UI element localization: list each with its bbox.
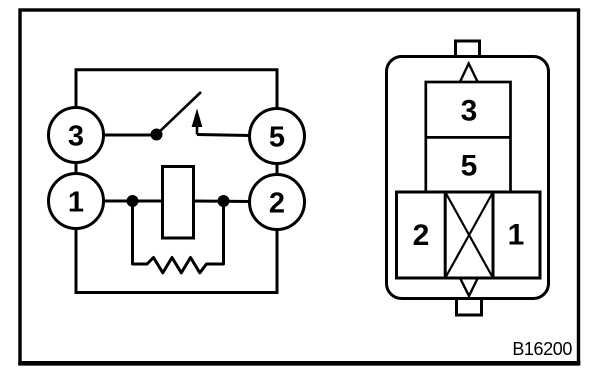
connector pin box 3 and 5 outline	[426, 82, 511, 192]
terminal 3	[49, 108, 104, 163]
svg-text:1: 1	[68, 186, 84, 218]
junction node right of coil	[218, 195, 230, 207]
wire from coil to terminal 2	[194, 200, 251, 204]
svg-text:3: 3	[461, 94, 478, 127]
connector keying arrow up	[460, 64, 478, 83]
svg-text:2: 2	[269, 187, 285, 219]
keyway cell left wall	[444, 192, 447, 278]
wire from terminal 1 to coil	[105, 200, 163, 203]
switch S contact junction dot	[151, 129, 163, 141]
keyway cross diagonal 1	[445, 192, 493, 278]
wire from terminal 3 to switch contact	[104, 134, 153, 137]
connector keying arrow down	[460, 278, 478, 296]
divider between pin 3 and pin 5	[426, 136, 511, 139]
wire bottom loop from terminal 1 to terminal 2	[76, 229, 277, 293]
svg-text:5: 5	[269, 121, 285, 153]
wire stub terminal 5 to terminal 2	[276, 164, 279, 175]
relay coil L1	[163, 167, 194, 239]
keyway cell right wall	[492, 192, 495, 278]
svg-text:2: 2	[413, 219, 430, 252]
wire top loop from terminal 3 to terminal 5	[76, 70, 277, 110]
junction node left of coil	[127, 195, 139, 207]
switch S blade	[157, 92, 202, 135]
connector bottom locating tab	[457, 297, 482, 315]
switch S arrow stem	[196, 126, 199, 135]
terminal 2	[250, 175, 305, 230]
connector top locating tab	[456, 41, 480, 58]
svg-text:3: 3	[68, 120, 84, 152]
terminal 1	[49, 174, 104, 229]
switch S arrow head	[192, 109, 203, 128]
svg-text:5: 5	[461, 150, 478, 183]
connector body outline	[387, 57, 549, 299]
connector lower pin row outline	[397, 192, 541, 278]
keyway cross diagonal 2	[445, 192, 493, 278]
svg-text:B16200: B16200	[512, 339, 572, 359]
wire from switch arrow to terminal 5	[197, 135, 250, 136]
wire stub terminal 3 to terminal 1	[75, 163, 78, 174]
svg-text:1: 1	[508, 218, 525, 251]
resistor R branch with zigzag	[133, 201, 224, 273]
terminal 5	[250, 109, 305, 164]
